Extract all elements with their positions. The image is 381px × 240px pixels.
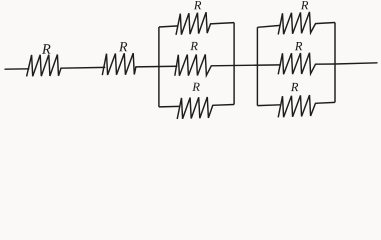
label R3 (block1 top) <box>194 1 201 9</box>
label R2 <box>119 42 127 51</box>
block1 left rail <box>158 27 160 107</box>
block2 right rail <box>334 23 336 103</box>
wire block1 middle to block2 middle <box>211 64 281 67</box>
resistor R2 <box>102 53 136 75</box>
block2 left rail <box>256 27 258 105</box>
resistor R1 <box>27 55 61 77</box>
block1 bottom-right lead <box>212 104 234 107</box>
resistor R4 (block1 middle) <box>175 54 212 75</box>
block2 bottom-right lead <box>315 101 335 104</box>
label R1 <box>42 44 51 53</box>
resistor R5 (block1 bottom) <box>177 97 213 119</box>
resistor R8 (block2 bottom) <box>278 95 315 117</box>
wire block2 middle to right rail <box>315 63 335 65</box>
block1 top-left lead <box>159 26 178 27</box>
resistor R6 (block2 top) <box>278 12 315 35</box>
block2 top-right lead <box>315 23 335 24</box>
label R6 (block2 top) <box>301 1 308 9</box>
label R7 (block2 middle) <box>295 42 302 50</box>
wire between R1 and R2 <box>60 66 105 69</box>
label R4 (block1 middle) <box>190 42 197 50</box>
block2 bottom-left lead <box>257 104 280 107</box>
resistor R3 (block1 top) <box>176 12 211 35</box>
block1 right rail <box>233 23 235 105</box>
wire R2 through block1 left rail to middle resistor <box>135 65 177 68</box>
block2 top-left lead <box>257 25 280 27</box>
resistor R7 (block2 middle) <box>278 53 315 75</box>
block1 top-right lead <box>210 23 234 24</box>
block1 bottom-left lead <box>159 105 180 108</box>
label R8 (block2 bottom) <box>291 83 298 91</box>
label R5 (block1 bottom) <box>192 83 199 91</box>
wire left entry <box>5 68 30 70</box>
wire right exit <box>335 63 378 64</box>
